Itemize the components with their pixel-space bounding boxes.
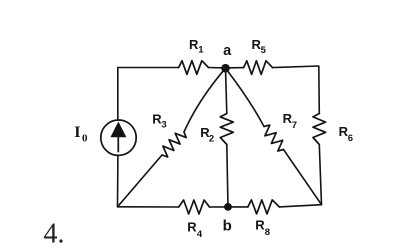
resistor R7: [264, 125, 284, 151]
svg-text:0: 0: [82, 133, 88, 145]
resistor R4: [179, 200, 210, 214]
current source I0 circle: [101, 120, 136, 155]
wire node a to R5: [226, 67, 244, 69]
resistor R5: [244, 61, 273, 75]
wire R4 to node b: [210, 206, 229, 208]
wire node a to R7: [226, 68, 265, 126]
svg-text:3: 3: [161, 120, 166, 131]
label R7: [283, 111, 297, 131]
resistor R2: [220, 114, 233, 145]
wire R3 to bottom-left corner: [118, 155, 163, 207]
wire node b to R8: [228, 206, 248, 208]
svg-text:7: 7: [292, 120, 297, 131]
svg-text:R: R: [255, 218, 265, 233]
wire R8 to bottom-right corner: [279, 205, 321, 207]
wire top-left segment: [118, 67, 179, 69]
svg-text:4: 4: [197, 229, 203, 240]
resistor R1: [179, 61, 209, 75]
wire R6 to bottom-right corner: [319, 145, 321, 205]
node a: [221, 64, 230, 73]
svg-text:a: a: [223, 43, 232, 59]
label R3: [152, 111, 166, 130]
label R8: [255, 218, 270, 239]
wire current source to bottom-left corner: [117, 155, 119, 207]
svg-text:4.: 4.: [44, 219, 65, 250]
svg-text:2: 2: [209, 134, 214, 145]
label I0: [74, 124, 88, 145]
svg-text:b: b: [223, 218, 232, 235]
resistor R6: [313, 114, 326, 145]
wire R7 to bottom-right corner: [284, 150, 322, 205]
svg-text:I: I: [74, 124, 80, 141]
svg-text:6: 6: [348, 133, 353, 144]
resistor R8: [248, 200, 279, 214]
node b: [224, 203, 232, 211]
svg-text:1: 1: [198, 45, 204, 56]
wire bottom-left corner to R4: [118, 206, 179, 208]
label R4: [187, 219, 203, 240]
wire top-left corner down to current source: [117, 68, 119, 121]
svg-text:5: 5: [261, 45, 267, 56]
wire R2 to node b: [227, 145, 228, 207]
wire R5 to top-right corner: [273, 66, 320, 114]
svg-text:8: 8: [265, 227, 270, 238]
label R6: [339, 124, 353, 144]
current source I0 arrow: [111, 122, 126, 152]
wire R1 to node a: [209, 67, 226, 69]
label R5: [252, 37, 267, 56]
svg-text:R: R: [187, 219, 197, 234]
label R2: [200, 125, 214, 144]
label R1: [189, 37, 204, 56]
wire node a to R2: [226, 68, 227, 113]
wire node a to R3: [184, 68, 226, 132]
resistor R3: [162, 132, 186, 157]
